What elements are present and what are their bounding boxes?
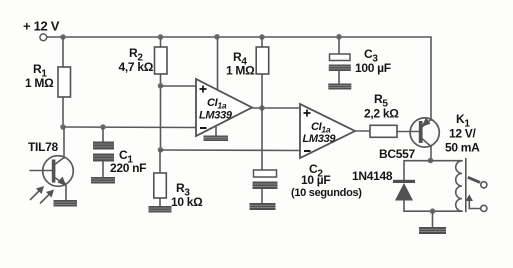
node C3 / top rail (336, 34, 342, 40)
ground op1 V- pin (204, 136, 229, 142)
+12V supply terminal (23, 19, 60, 41)
svg-text:(10 segundos): (10 segundos) (291, 187, 362, 199)
capacitor C1 (93, 142, 146, 176)
transistor Q2 BC557 (379, 118, 439, 162)
relay K1 coil (445, 112, 480, 212)
node R4 / top rail (259, 34, 265, 40)
svg-text:LM339: LM339 (199, 110, 233, 122)
op-amp U1a CI1a LM339 (196, 79, 252, 136)
wire reference bus to op2 inverting input (161, 149, 301, 152)
node bottom return / ground (430, 208, 436, 214)
node divider / op1 + input (158, 83, 164, 89)
wire R1 bottom lead (62, 97, 64, 127)
wire op1 non-inverting input (161, 85, 197, 87)
node divider / lower bus (158, 147, 164, 153)
ground under C3 (328, 84, 351, 90)
wire Q2 collector lead (430, 147, 432, 162)
ground relay return (419, 227, 446, 234)
svg-text:4,7 kΩ: 4,7 kΩ (119, 60, 154, 74)
wire op2 output (355, 130, 370, 132)
svg-text:1 MΩ: 1 MΩ (226, 64, 255, 78)
wire op1 V+ supply pin (217, 37, 219, 90)
relay K1 contacts (466, 177, 487, 211)
resistor R5 (364, 92, 399, 137)
node R1 bottom / bus (60, 124, 66, 130)
svg-text:TIL78: TIL78 (28, 140, 58, 154)
svg-text:50 mA: 50 mA (445, 141, 480, 155)
wire R2 top lead (160, 37, 162, 47)
svg-text:LM339: LM339 (303, 133, 337, 145)
ground under C2 (250, 203, 276, 210)
svg-text:220 nF: 220 nF (110, 161, 146, 175)
wire C3 top lead (338, 37, 340, 54)
node op1 V+ / top rail (214, 34, 220, 40)
wire C1 bottom lead (102, 162, 104, 178)
svg-text:+ 12 V: + 12 V (23, 19, 60, 34)
op-amp U1b CI1a LM339 (300, 104, 355, 158)
ground under TIL78 (54, 200, 78, 207)
wire lower-left bus (R1 / C1 / op-amp inverting input) (63, 126, 196, 129)
svg-text:100 µF: 100 µF (355, 61, 391, 75)
wire right rail down to Q2 emitter (430, 37, 432, 120)
wire Q1 collector lead (63, 127, 65, 158)
phototransistor Q1 TIL78 (28, 140, 73, 186)
ground under C1 (91, 177, 115, 184)
wire C2 bottom lead (261, 189, 263, 203)
wire op1 output to op2 + input (252, 107, 300, 109)
wire collector node to relay coil (431, 160, 462, 162)
wire top +12V rail (47, 36, 431, 38)
wire R4 top lead (261, 37, 263, 47)
ground under R3 (149, 206, 172, 213)
diode D1 1N4148 (352, 169, 415, 201)
wire Q1 emitter lead (65, 186, 67, 201)
wire bottom return (diode / relay / ground) (404, 210, 462, 212)
resistor R4 (226, 47, 269, 78)
resistor R1 (25, 62, 71, 97)
node R1/top rail (60, 34, 66, 40)
resistor R2 (119, 46, 168, 74)
svg-text:12 V/: 12 V/ (449, 127, 476, 141)
node C1 / bus (100, 124, 106, 130)
wire R5 to Q2 base (397, 131, 419, 133)
capacitor C3 (329, 47, 391, 75)
svg-text:1N4148: 1N4148 (352, 169, 393, 183)
wire R2/R3 divider line (160, 74, 162, 150)
wire R4 bottom lead (261, 74, 263, 108)
light arrows into Q1 (31, 186, 55, 203)
wire C2 top lead (261, 108, 263, 170)
resistor R3 (154, 173, 203, 209)
wire R3 top lead (159, 150, 161, 173)
wire C3 bottom lead (338, 71, 340, 84)
svg-text:1 MΩ: 1 MΩ (25, 76, 54, 90)
svg-text:10 kΩ: 10 kΩ (171, 195, 203, 209)
wire diode bottom lead (403, 201, 405, 212)
node collector / diode / relay (428, 158, 434, 164)
node op1 output / R4 / C2 (259, 105, 265, 111)
capacitor C2 (253, 162, 363, 199)
node R2 / top rail (158, 34, 164, 40)
wire ground stub (432, 211, 434, 227)
svg-text:BC557: BC557 (379, 147, 415, 161)
wire op1 V- stub (215, 127, 217, 136)
wire R1 top lead (62, 37, 64, 67)
wire collector node to diode (404, 160, 431, 162)
svg-text:2,2 kΩ: 2,2 kΩ (364, 107, 399, 121)
wire diode top lead (403, 161, 405, 180)
svg-text:10 µF: 10 µF (301, 173, 330, 187)
wire R3 bottom lead (159, 198, 161, 206)
wire C1 top lead (102, 127, 104, 142)
